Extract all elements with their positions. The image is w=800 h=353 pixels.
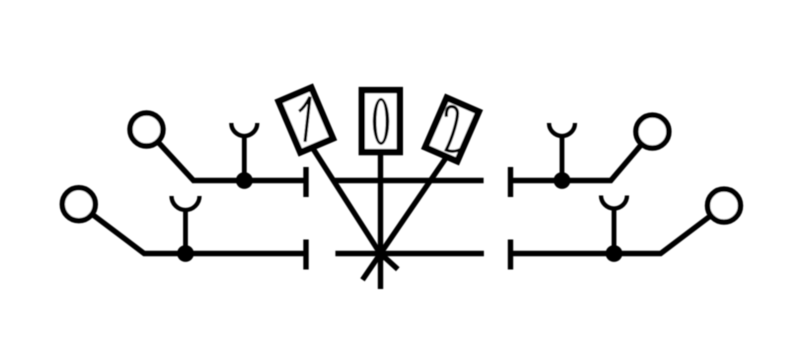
contact clip stem row1 left xyxy=(242,135,247,181)
position box 1 xyxy=(279,88,333,153)
digit 2 xyxy=(446,107,462,152)
junction dot row2 right xyxy=(606,245,623,262)
contact clip stem row2 right xyxy=(612,207,617,254)
wire row2 right with terminal arm xyxy=(513,206,724,254)
actuator line position 0 xyxy=(378,121,383,289)
wire row2 left with terminal arm xyxy=(79,204,304,253)
wire row1 left with terminal arm xyxy=(147,130,304,181)
contact gap tick row1 left xyxy=(303,167,308,197)
contact clip arc row2 right xyxy=(601,196,627,209)
digit 1 xyxy=(299,97,310,142)
wire row2 middle xyxy=(335,251,484,256)
junction dot row1 left xyxy=(236,172,253,189)
wire row1 middle xyxy=(335,178,484,183)
actuator line position 2 xyxy=(363,140,459,280)
contact clip stem row1 right xyxy=(560,135,565,181)
actuator line position 1 xyxy=(308,140,385,260)
actuator stub lower right xyxy=(381,254,398,270)
terminal circle row1 right xyxy=(636,115,669,148)
contact gap tick row2 right xyxy=(508,240,513,270)
contact clip stem row2 left xyxy=(183,209,188,254)
contact clip arc row1 right xyxy=(549,123,575,136)
wire row1 right with terminal arm xyxy=(513,132,652,181)
position box 0 xyxy=(362,90,400,152)
terminal circle row1 left xyxy=(130,113,163,146)
contact clip arc row2 left xyxy=(172,196,200,210)
contact clip arc row1 left xyxy=(231,123,257,136)
contact gap tick row2 left xyxy=(303,240,308,270)
contact gap tick row1 right xyxy=(508,167,513,197)
junction dot row2 left xyxy=(177,245,194,262)
position box 2 xyxy=(425,98,479,161)
terminal circle row2 left xyxy=(62,188,95,221)
terminal circle row2 right xyxy=(708,189,741,222)
digit 0 xyxy=(373,98,389,145)
junction dot row1 right xyxy=(554,172,571,189)
